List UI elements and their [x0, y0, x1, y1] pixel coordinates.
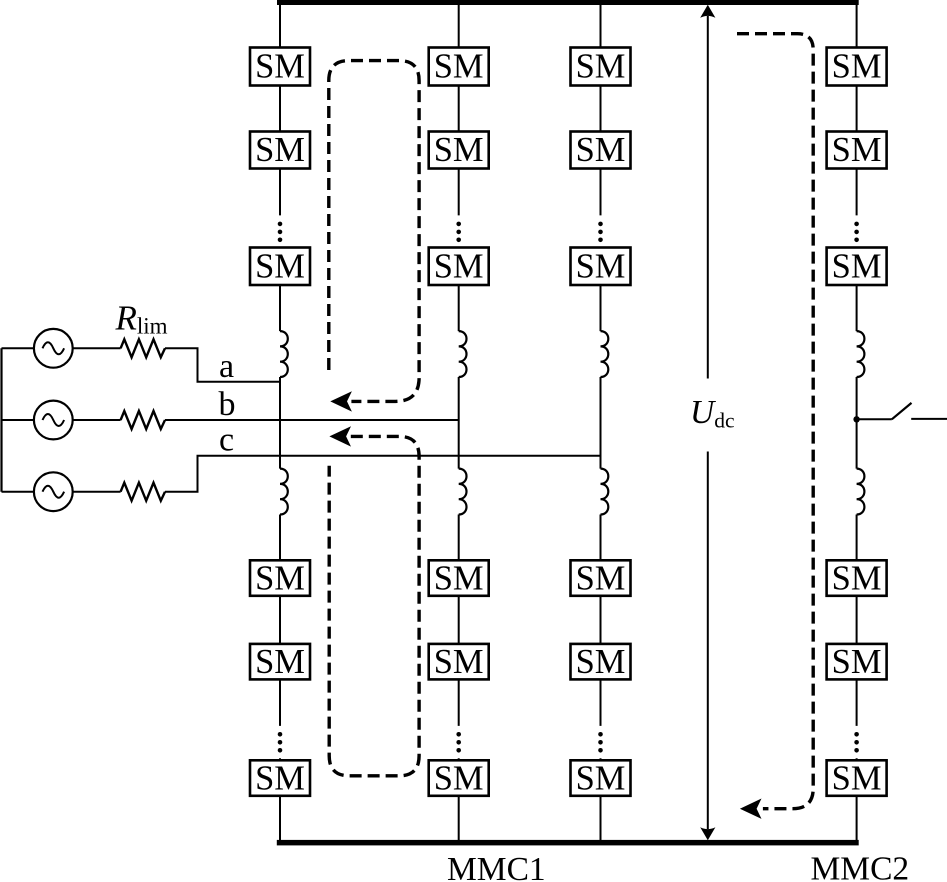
svg-text:SM: SM [255, 131, 305, 169]
svg-text:SM: SM [434, 247, 484, 285]
submodule SM box lower 1 of leg B (MMC1 phase b) [429, 559, 489, 597]
wire source Va to resistor [73, 347, 121, 349]
arm inductor lower leg C (MMC1 phase c) [601, 469, 609, 515]
bottom DC bus [277, 840, 859, 846]
submodule SM box upper 1 of MMC2 leg [827, 48, 887, 86]
svg-text:SM: SM [576, 643, 626, 681]
arm inductor upper leg C (MMC1 phase c) [601, 331, 609, 377]
resistor R1 (Rlim) [121, 339, 165, 357]
svg-text:SM: SM [576, 559, 626, 597]
svg-text:SM: SM [434, 48, 484, 86]
svg-text:SM: SM [832, 247, 882, 285]
wire leg B (MMC1 phase b) lower arm [458, 515, 460, 842]
wire source Vb to resistor [73, 419, 121, 421]
submodule SM box lower 2 of leg A (MMC1 phase a) [250, 643, 310, 681]
svg-text:SM: SM [832, 643, 882, 681]
top DC bus [277, 0, 859, 5]
submodule SM box lower 3 of leg C (MMC1 phase c) [571, 759, 631, 797]
arrowhead of lower dashed loop [329, 426, 351, 446]
wire AC common bus (left vertical) [0, 348, 2, 491]
wire MMC2 leg upper arm [856, 2, 858, 469]
submodule SM box lower 1 of leg A (MMC1 phase a) [250, 559, 310, 597]
node junction dot on MMC2 leg [853, 416, 859, 422]
svg-text:SM: SM [255, 559, 305, 597]
arm inductor upper leg A (MMC1 phase a) [280, 331, 288, 377]
arm inductor lower leg B (MMC1 phase b) [459, 469, 467, 515]
submodule SM box lower 2 of leg B (MMC1 phase b) [429, 643, 489, 681]
submodule SM box upper 1 of leg C (MMC1 phase c) [571, 48, 631, 86]
submodule SM box upper 1 of leg A (MMC1 phase a) [250, 48, 310, 86]
wire leg C (MMC1 phase c) lower arm [600, 515, 602, 842]
svg-text:SM: SM [434, 559, 484, 597]
arm inductor lower MMC2 leg [857, 469, 865, 515]
Udc arrow line lower segment [707, 452, 709, 830]
submodule SM box lower 2 of MMC2 leg [827, 643, 887, 681]
submodule SM box upper 3 of MMC2 leg [827, 247, 887, 285]
ellipsis dots upper arm MMC2 leg [854, 222, 859, 243]
submodule SM box upper 3 of leg B (MMC1 phase b) [429, 247, 489, 285]
ellipsis dots upper arm leg C (MMC1 phase c) [598, 222, 603, 243]
submodule SM box upper 3 of leg C (MMC1 phase c) [571, 247, 631, 285]
wire leg A (MMC1 phase a) upper arm [279, 2, 281, 469]
submodule SM box lower 2 of leg C (MMC1 phase c) [571, 643, 631, 681]
switch S1 blade [892, 403, 912, 419]
svg-text:a: a [219, 348, 234, 385]
arm inductor upper leg B (MMC1 phase b) [459, 331, 467, 377]
submodule SM box lower 3 of leg A (MMC1 phase a) [250, 759, 310, 797]
ellipsis dots upper arm leg A (MMC1 phase a) [278, 222, 283, 243]
resistor R3 [121, 483, 165, 501]
AC source Va (sine source circle) [34, 329, 73, 368]
submodule SM box upper 2 of leg A (MMC1 phase a) [250, 131, 310, 169]
submodule SM box upper 1 of leg B (MMC1 phase b) [429, 48, 489, 86]
Udc arrowhead up [700, 5, 715, 18]
arm inductor lower leg A (MMC1 phase a) [280, 469, 288, 515]
AC source Vb (sine source circle) [34, 401, 73, 440]
svg-text:SM: SM [576, 131, 626, 169]
svg-text:SM: SM [434, 759, 484, 797]
ellipsis dots upper arm leg B (MMC1 phase b) [456, 222, 461, 243]
svg-text:c: c [219, 421, 234, 458]
submodule SM box upper 2 of leg C (MMC1 phase c) [571, 131, 631, 169]
wire leg B (MMC1 phase b) upper arm [458, 2, 460, 469]
wire source Vb left stub [2, 419, 34, 421]
wire source Vc to resistor [73, 491, 121, 493]
svg-text:SM: SM [576, 759, 626, 797]
svg-text:SM: SM [255, 48, 305, 86]
ellipsis dots lower arm leg A (MMC1 phase a) [278, 732, 283, 753]
svg-text:SM: SM [576, 48, 626, 86]
submodule SM box lower 3 of MMC2 leg [827, 759, 887, 797]
ellipsis dots lower arm leg B (MMC1 phase b) [456, 732, 461, 753]
svg-text:SM: SM [255, 643, 305, 681]
wire phase a (node a) [165, 348, 280, 382]
submodule SM box upper 2 of MMC2 leg [827, 131, 887, 169]
wire switch S1 left lead [857, 418, 892, 420]
svg-text:SM: SM [576, 247, 626, 285]
svg-text:SM: SM [832, 559, 882, 597]
wire MMC2 leg lower arm [856, 515, 858, 842]
submodule SM box upper 3 of leg A (MMC1 phase a) [250, 247, 310, 285]
wire phase c (node c) [165, 456, 601, 492]
svg-text:MMC2: MMC2 [811, 851, 910, 882]
ellipsis dots lower arm MMC2 leg [854, 732, 859, 753]
wire source Va left stub [2, 347, 34, 349]
svg-text:b: b [219, 386, 236, 423]
svg-text:SM: SM [832, 48, 882, 86]
submodule SM box lower 3 of leg B (MMC1 phase b) [429, 759, 489, 797]
arm inductor upper MMC2 leg [857, 331, 865, 377]
svg-text:SM: SM [832, 131, 882, 169]
Udc arrow line upper segment [707, 16, 709, 379]
dashed path MMC2 (charging current path along right leg) [737, 34, 813, 809]
wire leg C (MMC1 phase c) upper arm [600, 2, 602, 469]
ellipsis dots lower arm leg C (MMC1 phase c) [598, 732, 603, 753]
svg-text:SM: SM [434, 131, 484, 169]
dashed loop lower (circulating current path, lower arms) [329, 436, 419, 775]
arrowhead of MMC2 dashed path [740, 799, 762, 819]
resistor R2 [121, 411, 165, 429]
submodule SM box upper 2 of leg B (MMC1 phase b) [429, 131, 489, 169]
wire switch S1 right lead [911, 418, 947, 420]
submodule SM box lower 1 of leg C (MMC1 phase c) [571, 559, 631, 597]
AC source Vc (sine source circle) [34, 472, 73, 511]
Udc arrowhead down [700, 827, 715, 840]
dashed loop upper (circulating current path, between leg A and leg B upper arms) [329, 61, 419, 402]
svg-text:MMC1: MMC1 [447, 851, 546, 882]
submodule SM box lower 1 of MMC2 leg [827, 559, 887, 597]
wire leg A (MMC1 phase a) lower arm [279, 515, 281, 842]
wire source Vc left stub [2, 491, 34, 493]
svg-text:SM: SM [255, 247, 305, 285]
svg-text:SM: SM [832, 759, 882, 797]
arrowhead of upper dashed loop [330, 391, 352, 411]
wire phase b (node b) [165, 419, 459, 421]
svg-text:SM: SM [255, 759, 305, 797]
svg-text:SM: SM [434, 643, 484, 681]
